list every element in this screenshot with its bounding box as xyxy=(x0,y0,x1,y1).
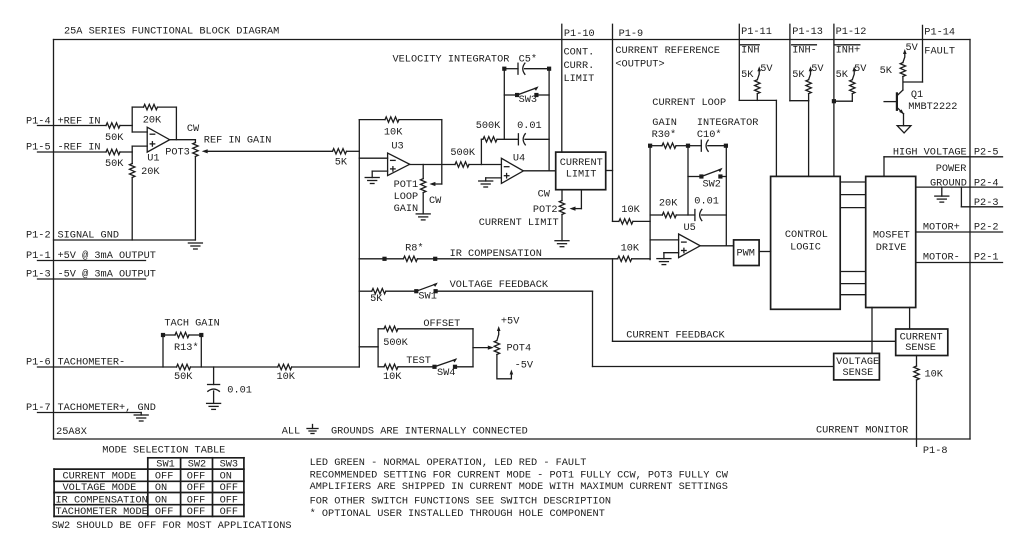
svg-text:50K: 50K xyxy=(105,132,124,144)
svg-text:SW4: SW4 xyxy=(437,367,455,379)
svg-text:LOGIC: LOGIC xyxy=(790,242,821,254)
svg-text:POT3: POT3 xyxy=(165,147,190,159)
svg-text:* OPTIONAL USER INSTALLED THRO: * OPTIONAL USER INSTALLED THROUGH HOLE C… xyxy=(310,508,605,520)
svg-text:5V: 5V xyxy=(854,63,867,75)
svg-text:20K: 20K xyxy=(141,166,160,178)
svg-text:LIMIT: LIMIT xyxy=(564,73,595,85)
svg-text:25A SERIES FUNCTIONAL BLOCK DI: 25A SERIES FUNCTIONAL BLOCK DIAGRAM xyxy=(64,26,279,38)
svg-text:INTEGRATOR: INTEGRATOR xyxy=(697,117,759,129)
svg-text:500K: 500K xyxy=(383,337,408,349)
svg-text:P1-10: P1-10 xyxy=(564,28,595,40)
svg-text:CURRENT LOOP: CURRENT LOOP xyxy=(652,97,726,109)
svg-text:ON: ON xyxy=(155,494,167,506)
svg-text:OFF: OFF xyxy=(155,506,173,518)
svg-text:POT2: POT2 xyxy=(533,204,558,216)
svg-text:P2-2: P2-2 xyxy=(974,221,999,233)
svg-text:POT4: POT4 xyxy=(507,343,532,355)
svg-text:<OUTPUT>: <OUTPUT> xyxy=(615,59,664,71)
svg-text:OFFSET: OFFSET xyxy=(423,318,460,330)
svg-text:MOSFET: MOSFET xyxy=(873,230,910,242)
svg-text:5K: 5K xyxy=(880,65,893,77)
svg-text:20K: 20K xyxy=(143,114,162,126)
svg-text:10K: 10K xyxy=(621,243,640,255)
svg-text:IR COMPENSATION: IR COMPENSATION xyxy=(450,248,542,260)
svg-text:500K: 500K xyxy=(476,120,501,132)
svg-text:MMBT2222: MMBT2222 xyxy=(908,101,957,113)
svg-text:5K: 5K xyxy=(335,157,348,169)
svg-text:LOOP: LOOP xyxy=(394,191,419,203)
svg-text:P2-5: P2-5 xyxy=(974,146,999,158)
svg-text:DRIVE: DRIVE xyxy=(876,242,907,254)
svg-text:ALL: ALL xyxy=(282,426,300,438)
svg-text:CURRENT FEEDBACK: CURRENT FEEDBACK xyxy=(626,330,725,342)
svg-text:5K: 5K xyxy=(792,69,805,81)
svg-text:CONTROL: CONTROL xyxy=(785,229,828,241)
svg-text:P1-4: P1-4 xyxy=(26,116,51,128)
svg-text:P2-4: P2-4 xyxy=(974,177,999,189)
svg-text:VOLTAGE FEEDBACK: VOLTAGE FEEDBACK xyxy=(450,279,549,291)
svg-text:RECOMMENDED SETTING FOR CURREN: RECOMMENDED SETTING FOR CURRENT MODE - P… xyxy=(310,470,729,482)
svg-text:HIGH VOLTAGE: HIGH VOLTAGE xyxy=(893,146,967,158)
svg-text:VELOCITY INTEGRATOR: VELOCITY INTEGRATOR xyxy=(393,53,510,65)
svg-text:CW: CW xyxy=(187,123,200,135)
svg-text:GROUND: GROUND xyxy=(930,177,967,189)
svg-text:U5: U5 xyxy=(684,222,696,234)
svg-text:SW1: SW1 xyxy=(418,291,436,303)
svg-text:SW2 SHOULD BE OFF FOR MOST APP: SW2 SHOULD BE OFF FOR MOST APPLICATIONS xyxy=(52,520,292,532)
svg-text:CURRENT REFERENCE: CURRENT REFERENCE xyxy=(615,45,720,57)
svg-text:P1-6: P1-6 xyxy=(26,357,51,369)
svg-text:P1-13: P1-13 xyxy=(792,26,823,38)
svg-text:P1-2: P1-2 xyxy=(26,230,51,242)
svg-text:10K: 10K xyxy=(925,369,944,381)
svg-text:SENSE: SENSE xyxy=(905,342,936,354)
svg-text:CURRENT MODE: CURRENT MODE xyxy=(63,470,137,482)
svg-text:CURRENT: CURRENT xyxy=(560,157,603,169)
svg-text:TACHOMETER+, GND: TACHOMETER+, GND xyxy=(58,402,156,414)
svg-text:INH-: INH- xyxy=(792,45,817,57)
svg-text:+5V @ 3mA OUTPUT: +5V @ 3mA OUTPUT xyxy=(58,250,156,262)
svg-text:+REF IN: +REF IN xyxy=(58,116,101,128)
svg-text:U3: U3 xyxy=(391,141,403,153)
svg-text:P1-8: P1-8 xyxy=(923,445,948,457)
svg-text:SENSE: SENSE xyxy=(843,367,874,379)
svg-text:-5V @ 3mA OUTPUT: -5V @ 3mA OUTPUT xyxy=(58,269,156,281)
svg-text:PWM: PWM xyxy=(737,248,755,260)
svg-text:OFF: OFF xyxy=(220,482,238,494)
svg-text:0.01: 0.01 xyxy=(694,196,719,208)
svg-text:TACHOMETER MODE: TACHOMETER MODE xyxy=(56,506,148,518)
svg-text:C5*: C5* xyxy=(519,53,537,65)
svg-text:5V: 5V xyxy=(811,63,824,75)
svg-text:CW: CW xyxy=(538,188,551,200)
svg-text:U4: U4 xyxy=(513,153,525,165)
svg-text:SW3: SW3 xyxy=(220,459,238,471)
svg-text:MODE SELECTION TABLE: MODE SELECTION TABLE xyxy=(102,445,225,457)
svg-text:SW2: SW2 xyxy=(188,459,206,471)
svg-text:OFF: OFF xyxy=(187,470,205,482)
svg-text:+5V: +5V xyxy=(501,315,520,327)
svg-text:P1-14: P1-14 xyxy=(924,26,955,38)
svg-text:VOLTAGE MODE: VOLTAGE MODE xyxy=(63,482,137,494)
svg-text:P1-1: P1-1 xyxy=(26,250,51,262)
svg-text:SIGNAL GND: SIGNAL GND xyxy=(58,230,120,242)
svg-text:10K: 10K xyxy=(384,127,403,139)
svg-text:ON: ON xyxy=(220,470,232,482)
svg-text:20K: 20K xyxy=(659,198,678,210)
svg-text:P1-11: P1-11 xyxy=(741,26,772,38)
svg-text:P1-7: P1-7 xyxy=(26,402,51,414)
svg-text:POWER: POWER xyxy=(936,163,967,175)
svg-text:MOTOR-: MOTOR- xyxy=(923,252,960,264)
svg-text:5K: 5K xyxy=(370,293,383,305)
svg-text:R13*: R13* xyxy=(174,342,199,354)
svg-text:5K: 5K xyxy=(741,69,754,81)
svg-text:MOTOR+: MOTOR+ xyxy=(923,221,960,233)
svg-text:25A8X: 25A8X xyxy=(56,426,87,438)
svg-text:CURR.: CURR. xyxy=(564,60,595,72)
svg-text:IR COMPENSATION: IR COMPENSATION xyxy=(56,494,148,506)
svg-text:5V: 5V xyxy=(906,42,919,54)
svg-text:OFF: OFF xyxy=(187,506,205,518)
svg-text:LED GREEN - NORMAL OPERATION,: LED GREEN - NORMAL OPERATION, LED RED - … xyxy=(310,457,587,469)
svg-text:CURRENT LIMIT: CURRENT LIMIT xyxy=(479,217,559,229)
svg-text:OFF: OFF xyxy=(220,506,238,518)
svg-text:0.01: 0.01 xyxy=(227,385,252,397)
svg-text:LIMIT: LIMIT xyxy=(566,168,597,180)
svg-text:TACH GAIN: TACH GAIN xyxy=(164,318,219,330)
svg-text:10K: 10K xyxy=(621,204,640,216)
svg-text:P1-12: P1-12 xyxy=(836,26,867,38)
svg-text:-5V: -5V xyxy=(515,360,534,372)
svg-text:10K: 10K xyxy=(277,371,296,383)
svg-text:0.01: 0.01 xyxy=(517,120,542,132)
svg-text:GAIN: GAIN xyxy=(652,117,677,129)
svg-text:P2-1: P2-1 xyxy=(974,252,999,264)
svg-text:50K: 50K xyxy=(174,371,193,383)
svg-text:R30*: R30* xyxy=(652,129,677,141)
svg-text:P2-3: P2-3 xyxy=(974,197,999,209)
svg-text:500K: 500K xyxy=(450,147,475,159)
svg-text:AMPLIFIERS ARE SHIPPED IN CURR: AMPLIFIERS ARE SHIPPED IN CURRENT MODE W… xyxy=(310,481,728,493)
svg-text:FOR OTHER SWITCH FUNCTIONS SEE: FOR OTHER SWITCH FUNCTIONS SEE SWITCH DE… xyxy=(310,495,611,507)
svg-text:CW: CW xyxy=(429,195,442,207)
svg-text:P1-9: P1-9 xyxy=(619,28,644,40)
svg-text:50K: 50K xyxy=(105,158,124,170)
svg-text:SW3: SW3 xyxy=(519,94,537,106)
svg-text:GROUNDS ARE INTERNALLY CONNECT: GROUNDS ARE INTERNALLY CONNECTED xyxy=(331,426,528,438)
svg-text:POT1: POT1 xyxy=(394,179,419,191)
svg-text:5V: 5V xyxy=(760,63,773,75)
svg-text:C10*: C10* xyxy=(697,129,722,141)
svg-text:OFF: OFF xyxy=(220,494,238,506)
svg-text:10K: 10K xyxy=(383,371,402,383)
svg-text:P1-3: P1-3 xyxy=(26,269,51,281)
svg-text:Q1: Q1 xyxy=(911,89,923,101)
svg-text:OFF: OFF xyxy=(187,494,205,506)
svg-text:P1-5: P1-5 xyxy=(26,142,51,154)
svg-text:-REF IN: -REF IN xyxy=(58,142,101,154)
svg-text:CONT.: CONT. xyxy=(564,47,595,59)
svg-text:INH+: INH+ xyxy=(836,45,861,57)
svg-text:REF IN GAIN: REF IN GAIN xyxy=(204,134,272,146)
svg-text:OFF: OFF xyxy=(187,482,205,494)
svg-text:SW1: SW1 xyxy=(156,459,174,471)
svg-text:INH: INH xyxy=(741,45,759,57)
svg-text:CURRENT MONITOR: CURRENT MONITOR xyxy=(816,425,908,437)
svg-text:TEST: TEST xyxy=(406,355,431,367)
svg-text:ON: ON xyxy=(155,482,167,494)
svg-text:GAIN: GAIN xyxy=(394,203,419,215)
svg-text:U1: U1 xyxy=(147,153,159,165)
svg-text:FAULT: FAULT xyxy=(924,45,955,57)
svg-text:OFF: OFF xyxy=(155,470,173,482)
svg-text:SW2: SW2 xyxy=(703,179,721,191)
svg-text:TACHOMETER-: TACHOMETER- xyxy=(58,357,126,369)
svg-text:5K: 5K xyxy=(836,69,849,81)
svg-text:R8*: R8* xyxy=(405,242,423,254)
